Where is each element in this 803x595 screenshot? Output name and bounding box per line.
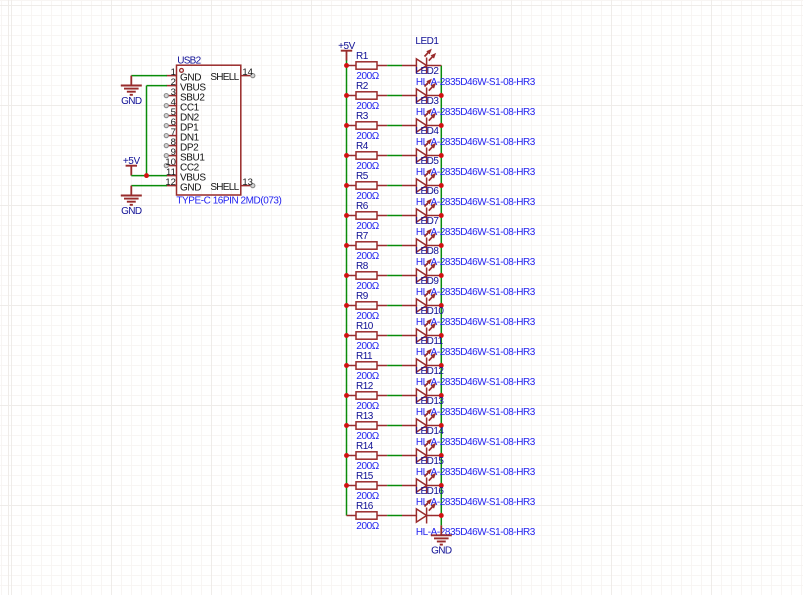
unconnected pin 6 circle — [164, 124, 168, 128]
ground flag (USB pin 1) — [121, 76, 142, 95]
power flag +5V (left) — [126, 166, 137, 176]
LED LED1 — [402, 49, 441, 74]
LED LED7 — [402, 229, 441, 254]
wire R13 to LED13 — [387, 425, 402, 427]
junction right rail row 6 — [439, 213, 444, 218]
wire R7 to LED7 — [387, 245, 402, 247]
pin 3 (SBU2) — [167, 95, 177, 97]
svg-text:LED8: LED8 — [415, 246, 439, 257]
junction right rail row 4 — [439, 153, 444, 158]
LED LED12 — [402, 379, 441, 404]
svg-text:R4: R4 — [356, 141, 369, 152]
wire pin2 vertical to +5V node — [146, 86, 148, 176]
resistor R14 — [347, 452, 388, 459]
svg-text:R14: R14 — [356, 441, 374, 452]
junction right rail row 2 — [439, 93, 444, 98]
wire R3 to LED3 — [387, 125, 402, 127]
junction +5V/pin2/pin11 node — [144, 173, 149, 178]
wire R8 to LED8 — [387, 275, 402, 277]
unconnected pin 10 circle — [164, 164, 168, 168]
junction left rail row 9 — [344, 303, 349, 308]
junction right rail row 3 — [439, 123, 444, 128]
junction right rail row 7 — [439, 243, 444, 248]
pin 8 (DP2) — [167, 145, 177, 147]
svg-text:LED6: LED6 — [415, 186, 439, 197]
svg-text:LED11: LED11 — [415, 336, 443, 347]
unconnected pin 9 circle — [164, 154, 168, 158]
wire R15 to LED15 — [387, 485, 402, 487]
svg-text:R11: R11 — [356, 351, 373, 362]
svg-text:R6: R6 — [356, 201, 369, 212]
svg-text:R1: R1 — [356, 51, 369, 62]
svg-text:GND: GND — [121, 206, 142, 217]
svg-text:LED4: LED4 — [415, 126, 439, 137]
ground flag (LED cathode rail) — [431, 525, 452, 544]
junction right rail row 5 — [439, 183, 444, 188]
LED LED14 — [402, 439, 441, 464]
LED LED15 — [402, 469, 441, 494]
wire R11 to LED11 — [387, 365, 402, 367]
unconnected pin 8 circle — [164, 144, 168, 148]
unconnected pin 5 circle — [164, 114, 168, 118]
svg-text:R9: R9 — [356, 291, 369, 302]
LED LED8 — [402, 259, 441, 284]
junction left rail row 12 — [344, 393, 349, 398]
resistor R7 — [347, 242, 388, 249]
wire R4 to LED4 — [387, 155, 402, 157]
unconnected pin 7 circle — [164, 134, 168, 138]
junction left rail row 8 — [344, 273, 349, 278]
junction right rail row 10 — [439, 333, 444, 338]
resistor R2 — [347, 92, 388, 99]
svg-text:LED14: LED14 — [415, 426, 444, 437]
unconnected pin 14 circle — [251, 74, 255, 78]
resistor R4 — [347, 152, 388, 159]
svg-text:R10: R10 — [356, 321, 374, 332]
svg-text:LED12: LED12 — [415, 366, 444, 377]
svg-text:R5: R5 — [356, 171, 369, 182]
pin 7 (DN1) — [167, 135, 177, 137]
pin 6 (DP1) — [167, 125, 177, 127]
resistor R3 — [347, 122, 388, 129]
svg-text:LED5: LED5 — [415, 156, 439, 167]
svg-text:SHELL: SHELL — [210, 72, 239, 83]
wire +5V to pin 11 — [131, 175, 167, 177]
svg-text:SHELL: SHELL — [210, 182, 239, 193]
svg-text:13: 13 — [242, 177, 253, 188]
wire +5V stub to rail — [346, 60, 348, 65]
svg-text:200Ω: 200Ω — [356, 521, 379, 532]
LED LED16 — [402, 499, 441, 524]
pin 1 marker circle — [180, 69, 184, 73]
pin 14 (SHELL) — [241, 75, 253, 77]
wire R5 to LED5 — [387, 185, 402, 187]
svg-text:R13: R13 — [356, 411, 374, 422]
LED LED10 — [402, 319, 441, 344]
connector U-USB2 body — [177, 65, 241, 195]
pin 9 (SBU1) — [167, 155, 177, 157]
junction right rail row 9 — [439, 303, 444, 308]
junction left rail row 10 — [344, 333, 349, 338]
LED LED5 — [402, 169, 441, 194]
pin 10 (CC2) — [167, 165, 177, 167]
wire R16 to LED16 — [387, 515, 402, 517]
pin 1 (GND) — [167, 75, 177, 77]
svg-text:LED2: LED2 — [415, 66, 439, 77]
svg-text:LED13: LED13 — [415, 396, 444, 407]
junction right rail row 13 — [439, 423, 444, 428]
unconnected pin 3 circle — [164, 94, 168, 98]
svg-text:LED16: LED16 — [415, 486, 444, 497]
svg-text:R12: R12 — [356, 381, 374, 392]
resistor R6 — [347, 212, 388, 219]
svg-text:TYPE-C 16PIN 2MD(073): TYPE-C 16PIN 2MD(073) — [176, 195, 281, 206]
svg-text:LED15: LED15 — [415, 456, 444, 467]
pin 12 (GND) — [167, 185, 177, 187]
pin 4 (CC1) — [167, 105, 177, 107]
svg-text:R16: R16 — [356, 501, 374, 512]
svg-text:R2: R2 — [356, 81, 369, 92]
wire R14 to LED14 — [387, 455, 402, 457]
svg-text:R7: R7 — [356, 231, 369, 242]
junction left rail row 15 — [344, 483, 349, 488]
junction left rail row 14 — [344, 453, 349, 458]
junction right rail row 8 — [439, 273, 444, 278]
resistor R12 — [347, 392, 388, 399]
junction left rail row 4 — [344, 153, 349, 158]
svg-text:GND: GND — [431, 546, 452, 557]
junction left rail row 13 — [344, 423, 349, 428]
wire R6 to LED6 — [387, 215, 402, 217]
wire pin2 horizontal — [147, 85, 168, 87]
pin 11 (VBUS) — [167, 175, 177, 177]
LED LED4 — [402, 139, 441, 164]
wire R9 to LED9 — [387, 305, 402, 307]
svg-text:R15: R15 — [356, 471, 374, 482]
resistor R15 — [347, 482, 388, 489]
wire right cathode rail — [440, 66, 442, 526]
resistor R1 — [347, 62, 388, 69]
junction left rail row 3 — [344, 123, 349, 128]
resistor R13 — [347, 422, 388, 429]
svg-text:+5V: +5V — [123, 156, 141, 167]
wire R2 to LED2 — [387, 95, 402, 97]
pin 13 (SHELL) — [241, 185, 253, 187]
svg-text:R3: R3 — [356, 111, 369, 122]
junction left rail row 2 — [344, 93, 349, 98]
junction left rail row 6 — [344, 213, 349, 218]
resistor R5 — [347, 182, 388, 189]
LED LED13 — [402, 409, 441, 434]
junction right rail row 11 — [439, 363, 444, 368]
junction right rail row 15 — [439, 483, 444, 488]
pin 5 (DN2) — [167, 115, 177, 117]
junction right rail row 12 — [439, 393, 444, 398]
resistor R10 — [347, 332, 388, 339]
LED LED3 — [402, 109, 441, 134]
LED LED9 — [402, 289, 441, 314]
resistor R8 — [347, 272, 388, 279]
svg-text:+5V: +5V — [338, 41, 356, 52]
wire R1 to LED1 — [387, 65, 402, 67]
wire pin1 to GND flag — [131, 75, 167, 77]
power flag +5V (ladder) — [341, 51, 352, 61]
wire R10 to LED10 — [387, 335, 402, 337]
resistor R9 — [347, 302, 388, 309]
unconnected pin 13 circle — [251, 184, 255, 188]
svg-text:LED10: LED10 — [415, 306, 444, 317]
resistor R11 — [347, 362, 388, 369]
LED LED6 — [402, 199, 441, 224]
LED LED11 — [402, 349, 441, 374]
junction left rail row 1 — [344, 63, 349, 68]
wire pin12 to GND flag — [131, 185, 167, 187]
svg-text:LED1: LED1 — [415, 36, 439, 47]
junction right rail row 16 — [439, 513, 444, 518]
wire R12 to LED12 — [387, 395, 402, 397]
pin 2 (VBUS) — [167, 85, 177, 87]
svg-text:LED9: LED9 — [415, 276, 439, 287]
ground flag (USB pin 12) — [121, 186, 142, 205]
junction left rail row 11 — [344, 363, 349, 368]
wire left +5V rail — [346, 66, 348, 516]
junction left rail row 5 — [344, 183, 349, 188]
svg-text:14: 14 — [242, 67, 253, 78]
svg-text:LED7: LED7 — [415, 216, 439, 227]
svg-text:LED3: LED3 — [415, 96, 439, 107]
svg-text:GND: GND — [121, 96, 142, 107]
svg-text:GND: GND — [180, 182, 201, 193]
svg-text:R8: R8 — [356, 261, 369, 272]
junction right rail row 14 — [439, 453, 444, 458]
LED LED2 — [402, 79, 441, 104]
unconnected pin 4 circle — [164, 104, 168, 108]
junction left rail row 7 — [344, 243, 349, 248]
resistor R16 — [347, 512, 388, 519]
